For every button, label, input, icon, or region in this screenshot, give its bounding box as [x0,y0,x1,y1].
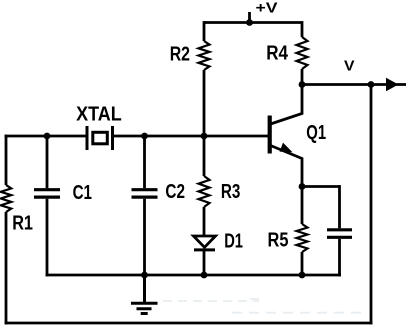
resistor R3 [199,176,210,207]
crystal XTAL right electrode bar [111,126,114,150]
svg-text:D1: D1 [224,231,243,253]
wire R4 top lead [301,21,304,37]
node emitter junction dot [299,183,306,190]
node R5 bottom junction dot [299,272,306,279]
resistor R1 [1,185,12,212]
svg-text:+V: +V [256,1,278,17]
diode D1 anode triangle [194,236,216,247]
wire R3 bottom lead [203,207,206,236]
wire top +V rail [204,21,302,24]
resistor R5 [297,224,308,252]
capacitor C1 [34,190,60,197]
wire left rail top segment [5,135,8,185]
wire R2 bottom lead [203,70,206,136]
ground symbol [131,275,158,314]
transistor Q1 base bar [268,116,272,154]
crystal XTAL left electrode bar [86,126,89,150]
wire D1 bottom lead [203,250,206,275]
diode D1 cathode bar [194,248,215,251]
node output junction dot [368,81,375,88]
wire base row left of crystal [5,135,87,138]
wire bypass cap top lead [338,185,341,228]
svg-text:R3: R3 [221,181,241,203]
svg-text:R5: R5 [268,229,289,251]
wire left rail bottom segment [5,212,8,324]
wire R3 top lead [203,136,206,176]
svg-text:R1: R1 [12,212,33,234]
wire right feedback rail [370,85,373,325]
resistor R2 [199,41,210,70]
svg-text:Q1: Q1 [306,122,326,144]
wire emitter to bypass cap top [302,185,340,188]
faint erased watermark remnants [163,299,368,313]
resistor R4 [297,37,308,69]
wire bypass cap bottom lead [338,239,341,277]
svg-text:R4: R4 [266,43,289,65]
svg-text:R2: R2 [170,44,190,66]
node C1 top junction dot [44,133,51,140]
wire C1 bottom lead [46,199,49,277]
wire output row [302,83,406,86]
transistor Q1 emitter arrowhead [280,143,293,153]
crystal XTAL body rectangle [93,132,108,144]
wire inner ground rail [46,274,341,277]
svg-text:C2: C2 [165,181,185,203]
node +V junction dot [246,19,253,26]
node collector junction dot [299,81,306,88]
wire R5 bottom lead [301,252,304,275]
wire C2 bottom lead [143,199,146,275]
+V terminal tick [248,12,251,23]
wire bottom outer rail [5,322,373,325]
node D1 bottom junction dot [201,272,208,279]
capacitor emitter bypass [327,230,352,238]
wire R2 top lead [203,21,206,41]
svg-text:XTAL: XTAL [76,103,122,125]
node R3 top junction dot [201,133,208,140]
node C2 top junction dot [141,133,148,140]
output arrowhead [386,78,399,91]
transistor Q1 collector stroke [271,85,303,125]
wire C2 top lead [143,136,146,188]
transistor Q1 emitter stroke [271,146,303,187]
wire C1 top lead [46,136,49,188]
svg-text:C1: C1 [73,182,92,204]
wire base row right of crystal [113,135,269,138]
node ground junction dot [141,272,148,279]
wire R4 bottom lead to collector node [301,69,304,85]
capacitor C2 [132,190,158,197]
wire R5 top lead [301,187,304,225]
svg-text:V: V [344,59,355,75]
